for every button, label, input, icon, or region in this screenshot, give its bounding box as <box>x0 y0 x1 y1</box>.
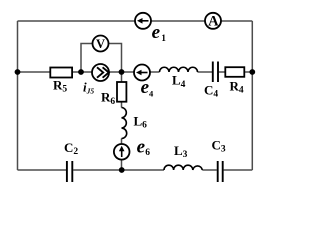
wire L6 to e6 <box>121 139 123 145</box>
wire left <box>17 21 19 170</box>
junction V-loop right <box>119 69 125 75</box>
svg-text:6: 6 <box>145 148 150 158</box>
inductor L6 <box>122 108 127 139</box>
inductor L3 <box>164 165 202 170</box>
svg-text:V: V <box>96 37 105 51</box>
wire bottom middle <box>73 169 164 171</box>
source e4 <box>134 65 150 81</box>
current source iJ5 <box>92 64 109 81</box>
wire voltmeter loop <box>81 44 122 73</box>
junction V-loop left <box>78 69 84 75</box>
resistor R6 <box>117 82 126 102</box>
wire between L4 and C4 <box>198 71 213 73</box>
ammeter A <box>205 13 221 30</box>
capacitor C3 <box>218 161 223 182</box>
svg-text:1: 1 <box>161 34 166 44</box>
inductor L4 <box>160 67 198 72</box>
junction bottom <box>119 167 125 173</box>
source e6 <box>114 144 130 160</box>
resistor R4 <box>225 67 244 77</box>
wire between C4 and R4 <box>219 71 253 73</box>
voltmeter V <box>93 36 109 52</box>
svg-text:e: e <box>152 22 161 43</box>
junction left <box>15 69 21 75</box>
wire middle branch upper <box>121 72 123 82</box>
wire right <box>251 21 253 170</box>
wire e6 to bottom <box>121 160 123 171</box>
wire top <box>18 20 253 22</box>
svg-text:e: e <box>137 137 146 158</box>
junction right <box>249 69 255 75</box>
wire bottom left <box>18 169 67 171</box>
wire R6 to L6 <box>121 102 123 108</box>
source e1 <box>135 13 151 29</box>
capacitor C4 <box>213 62 218 83</box>
wire bottom between L3 and C3 <box>202 169 217 171</box>
capacitor C2 <box>67 161 72 182</box>
wire middle horizontal <box>18 71 160 73</box>
wire bottom right <box>224 169 253 171</box>
resistor R5 <box>50 68 72 78</box>
svg-text:A: A <box>208 14 219 30</box>
